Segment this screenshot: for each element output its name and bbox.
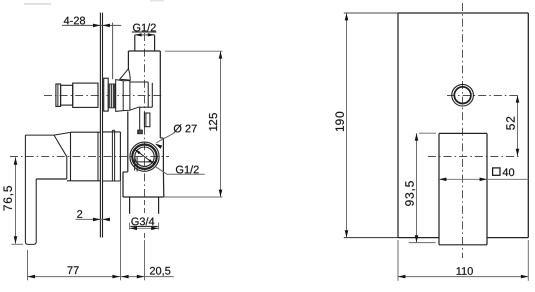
dimension 77 and 20,5 [28, 181, 174, 280]
top outlet pipe [135, 35, 155, 51]
dimension 110 [398, 240, 528, 281]
centerline shower outlet axis [447, 95, 519, 97]
label diameter 27 [155, 124, 197, 148]
cover plate (front view) [398, 13, 528, 238]
centerline vertical (left view) [144, 33, 146, 240]
wall plate (left view) [100, 13, 102, 238]
centerline inlet pipe [44, 95, 162, 97]
set screw [138, 130, 143, 134]
cartridge chord [134, 161, 156, 163]
inlet bore in body [130, 82, 152, 130]
dimension 4-28 [62, 17, 121, 80]
bottom outlet pipe [130, 197, 159, 230]
dimension 76,5 [3, 157, 23, 244]
label G1/2 middle [155, 165, 204, 174]
dimension 125 [164, 51, 223, 197]
centerline cartridge axis [10, 156, 169, 158]
label G3/4 [130, 217, 159, 230]
cartridge slot lines [135, 157, 138, 172]
dimension 93,5 [405, 133, 436, 242]
cartridge circle [130, 142, 159, 171]
shower outlet circle [452, 84, 474, 106]
cartridge diameter arrow [135, 149, 154, 164]
handle (front view) [439, 133, 487, 244]
dimension 52 [506, 95, 519, 156]
lever handle [25, 132, 70, 244]
front collar [116, 80, 130, 112]
mounting nut [104, 78, 109, 111]
centerline vertical (front view) [462, 3, 464, 258]
mounting sleeve [103, 130, 121, 181]
label G1/2 top [132, 23, 157, 36]
dimension 2 plate thickness [76, 210, 110, 221]
port clip [144, 113, 150, 127]
dimension 190 [335, 13, 398, 238]
faint artifact top-left [24, 0, 164, 5]
centerline handle axis (front view) [428, 156, 519, 158]
valve body upper block [123, 51, 164, 172]
valve body lower block [123, 172, 164, 197]
thread block [108, 84, 115, 108]
handle hub [67, 132, 100, 181]
beak transition [120, 69, 131, 80]
inlet cylinder small [61, 85, 73, 105]
dimension square 40 [439, 168, 529, 181]
inlet cap [56, 84, 61, 106]
inlet cylinder large [73, 83, 98, 107]
